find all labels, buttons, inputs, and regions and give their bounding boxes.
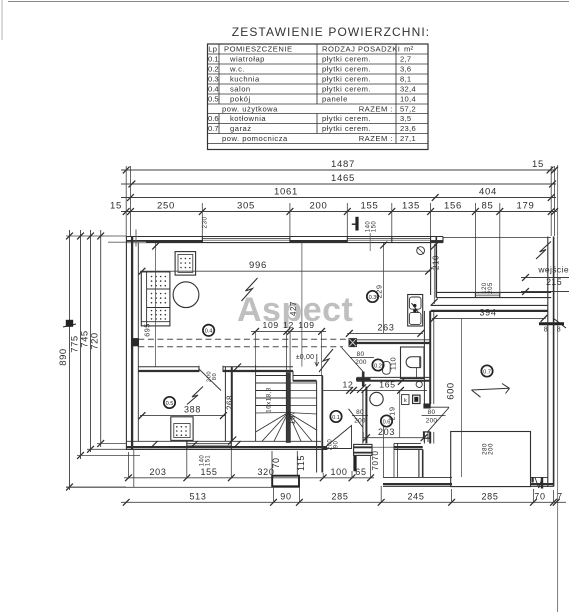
terrace left edge line [133, 450, 135, 488]
window glass lines bottom wall [187, 442, 232, 444]
svg-text:1061: 1061 [274, 187, 298, 198]
svg-text:513: 513 [189, 491, 206, 501]
junction block on left wall [132, 339, 139, 346]
garage door rectangle [451, 432, 531, 487]
dim line 203 155 320 100 65 bottom inner [124, 477, 374, 479]
svg-text:32,4: 32,4 [400, 85, 416, 94]
window axis ticks on bottom wall [151, 441, 158, 448]
svg-text:268: 268 [226, 395, 235, 410]
stairs center stringer [286, 373, 290, 443]
window axis line [369, 233, 371, 251]
svg-text:155: 155 [361, 201, 379, 212]
stairs treads left flight [256, 375, 287, 377]
window axis marker on top wall [355, 217, 358, 231]
svg-text:wiatrołap: wiatrołap [229, 55, 265, 64]
hall circle rug [370, 392, 383, 405]
top wall right end cap [442, 237, 444, 243]
svg-text:80: 80 [428, 409, 436, 416]
window glass lines top wall left [202, 238, 290, 240]
room 0.1 label circle [330, 411, 341, 422]
hall entrance door triangle [324, 426, 352, 449]
stringer extension lines to dim [286, 332, 288, 373]
right exterior wall [547, 237, 549, 487]
svg-text:3,5: 3,5 [400, 114, 411, 123]
svg-text:210: 210 [432, 255, 441, 270]
stairs left boundary line [255, 365, 257, 441]
svg-text:109: 109 [298, 320, 314, 330]
svg-text:0.3: 0.3 [208, 75, 219, 84]
dim 263 kitchen [347, 332, 423, 334]
svg-text:110: 110 [389, 357, 398, 370]
svg-text:600: 600 [446, 382, 457, 399]
svg-text:85: 85 [482, 201, 494, 212]
stairs notch wall [293, 375, 323, 377]
svg-text:100: 100 [330, 467, 347, 477]
kotlownia door swing [349, 409, 364, 428]
dim line 1061 and 404 [121, 197, 556, 199]
garage door wall cap [424, 404, 430, 408]
wall cross junction [356, 378, 371, 381]
svg-text:1487: 1487 [331, 159, 355, 170]
dashed overhang line lower [138, 346, 343, 348]
svg-text:263: 263 [377, 322, 394, 332]
svg-text:m²: m² [404, 44, 414, 53]
svg-text:pokój: pokój [230, 95, 251, 104]
top exterior wall inner line [126, 242, 443, 244]
svg-text:996: 996 [249, 260, 267, 271]
dim 12 165 hall [323, 389, 427, 391]
dim ext 695 line left [155, 243, 157, 367]
svg-text:150: 150 [372, 221, 378, 233]
svg-text:RAZEM :: RAZEM : [359, 105, 393, 114]
svg-text:3,6: 3,6 [400, 65, 411, 74]
svg-text:720: 720 [90, 332, 101, 349]
svg-text:394: 394 [479, 307, 496, 317]
svg-text:165: 165 [379, 379, 395, 389]
dim line 513 90 285 245 285 70 7 bottom outer [121, 501, 566, 503]
svg-text:0.2: 0.2 [208, 65, 219, 74]
svg-text:80: 80 [356, 409, 364, 416]
wc top wall end block hatched [349, 339, 356, 347]
svg-text:230: 230 [202, 216, 209, 228]
dim 394 garage [432, 317, 546, 319]
svg-text:187: 187 [288, 410, 297, 425]
svg-text:ZESTAWIENIE POWIERZCHNI:: ZESTAWIENIE POWIERZCHNI: [232, 25, 430, 39]
room 0.5 armchair [171, 417, 193, 441]
svg-text:427: 427 [289, 301, 298, 316]
dim 388 room 0.5 [140, 415, 225, 417]
left exterior wall [125, 237, 127, 450]
porch step side lines [271, 451, 273, 476]
wc washbasin [383, 362, 391, 375]
svg-text:płytki cerem.: płytki cerem. [322, 85, 371, 94]
svg-text:Lp: Lp [208, 44, 217, 53]
svg-text:200: 200 [355, 359, 367, 366]
svg-text:12: 12 [283, 320, 294, 330]
svg-text:70: 70 [371, 461, 380, 471]
svg-text:404: 404 [479, 187, 497, 198]
wc floor drain circle [416, 381, 422, 387]
svg-text:8: 8 [557, 327, 562, 334]
svg-text:płytki cerem.: płytki cerem. [322, 124, 371, 133]
garage gate opening sill line [452, 486, 531, 488]
porch step bold rectangle [272, 476, 299, 487]
svg-text:2,7: 2,7 [400, 55, 411, 64]
wc toilet [401, 347, 425, 379]
table column lines [218, 44, 220, 54]
dim line 1487 top [121, 169, 556, 171]
bottom exterior wall left part [126, 440, 321, 442]
svg-text:200: 200 [488, 443, 495, 455]
boiler box K [402, 395, 409, 405]
border right margin line [557, 165, 559, 612]
room 0.7 label circle [481, 365, 492, 376]
entry door jamb bold tick [353, 456, 356, 472]
border left tick [1, 0, 3, 40]
svg-text:65: 65 [355, 467, 366, 477]
room 0.3 label circle [367, 291, 378, 302]
kotlownia garage door swing [428, 408, 450, 432]
room 0.5 right wall [224, 367, 226, 442]
kitchen sink unit [408, 295, 423, 327]
svg-text:16x18,8: 16x18,8 [266, 387, 273, 413]
svg-text:salon: salon [230, 85, 251, 94]
room 0.4 label circle [203, 325, 214, 336]
kitchen right exterior wall [430, 243, 432, 295]
svg-text:POMIESZCZENIE: POMIESZCZENIE [224, 44, 293, 53]
svg-text:0.5: 0.5 [208, 95, 219, 104]
dim line segments 15 250 305 200 155 135 156 85 179 [121, 211, 557, 213]
svg-text:388: 388 [184, 404, 201, 414]
garage vertical ext line [460, 319, 462, 477]
room 0.5 door swing [199, 369, 222, 391]
svg-text:12: 12 [343, 379, 354, 389]
room 0.2 label circle [372, 359, 383, 370]
svg-text:200: 200 [310, 201, 328, 212]
garage door lower pier [424, 432, 430, 438]
svg-text:płytki cerem.: płytki cerem. [322, 55, 371, 64]
svg-text:179: 179 [517, 201, 535, 212]
section zigzag hall [319, 349, 333, 372]
wc door swing leaf [342, 348, 364, 372]
svg-text:695: 695 [143, 323, 152, 337]
svg-text:7: 7 [557, 491, 563, 501]
kotlownia left wall [362, 391, 364, 444]
wc bottom wall [357, 376, 431, 378]
svg-text:0.7: 0.7 [208, 124, 219, 133]
garage bottom wall right of gate [531, 476, 548, 478]
wall above stairs [223, 366, 293, 368]
kitchen zone divider ext line [383, 243, 385, 333]
svg-text:890: 890 [58, 348, 69, 365]
entry door sill line [372, 446, 394, 448]
svg-text:garaż: garaż [230, 124, 252, 133]
svg-text:70: 70 [371, 451, 380, 461]
svg-text:RODZAJ POSADZKI: RODZAJ POSADZKI [322, 44, 400, 53]
entry porch right edge [393, 450, 395, 478]
garage left wall [423, 311, 425, 404]
svg-text:245: 245 [407, 491, 424, 501]
dim line 775 [80, 230, 82, 459]
svg-text:1465: 1465 [331, 173, 355, 184]
top exterior wall outer line [126, 236, 443, 238]
dim line 1465 [121, 183, 556, 185]
svg-text:0.6: 0.6 [208, 114, 219, 123]
svg-text:w.c.: w.c. [229, 65, 245, 74]
garage side wall face line [433, 311, 435, 404]
corner construction lines top left [108, 241, 146, 243]
porch top wall with door [436, 291, 551, 293]
top wall solid emphasis segments [126, 240, 203, 242]
section zigzag room 0.5 [187, 387, 203, 405]
svg-text:135: 135 [402, 201, 420, 212]
hall side wall below bottom wall [316, 437, 318, 472]
svg-text:pow. użytkowa: pow. użytkowa [222, 105, 278, 114]
room 0.5 label circle [164, 397, 175, 408]
window glass lines top wall right [347, 238, 430, 240]
dim line 890 left [69, 230, 71, 490]
svg-text:90: 90 [334, 441, 340, 449]
marker on 890 line [66, 320, 72, 326]
dim line 720 [100, 230, 102, 447]
dim 109 12 109 stairs [251, 330, 326, 332]
svg-text:0.4: 0.4 [208, 85, 219, 94]
svg-text:15: 15 [532, 159, 544, 170]
svg-text:205: 205 [488, 282, 494, 294]
svg-text:200: 200 [354, 417, 366, 424]
dim tick on wc bottom wall [398, 378, 405, 385]
entry threshold block [354, 444, 372, 455]
svg-text:płytki cerem.: płytki cerem. [322, 114, 371, 123]
svg-text:±0,00: ±0,00 [296, 354, 314, 361]
room 0.6 label circle [381, 415, 392, 426]
svg-text:57,2: 57,2 [400, 105, 416, 114]
svg-text:70: 70 [534, 491, 545, 501]
garage lower left corner wall [418, 450, 420, 478]
svg-text:pow. pomocnicza: pow. pomocnicza [222, 134, 288, 143]
svg-text:155: 155 [200, 467, 217, 477]
svg-text:23,6: 23,6 [400, 124, 416, 133]
top wall window mullions [201, 237, 203, 243]
svg-text:90: 90 [280, 491, 291, 501]
stairs winder fan lines [256, 412, 289, 415]
garage bottom wall left of gate [383, 476, 452, 478]
border top edge line [8, 1, 569, 3]
svg-text:80: 80 [212, 373, 218, 380]
svg-text:kuchnia: kuchnia [230, 75, 260, 84]
svg-text:0.1: 0.1 [208, 55, 219, 64]
section zigzag right top [536, 242, 551, 260]
garage side door swing bottom right [531, 477, 533, 483]
svg-text:70: 70 [271, 457, 281, 468]
svg-text:285: 285 [481, 491, 498, 501]
svg-text:10,4: 10,4 [400, 95, 416, 104]
svg-text:15: 15 [110, 201, 122, 212]
svg-text:80: 80 [357, 351, 365, 358]
garage top wall [431, 304, 548, 306]
svg-text:250: 250 [157, 201, 175, 212]
boiler equipment square [413, 395, 420, 403]
garage slope chevron [472, 388, 510, 390]
svg-text:27,1: 27,1 [400, 134, 416, 143]
svg-text:305: 305 [237, 201, 255, 212]
svg-text:109: 109 [262, 320, 278, 330]
svg-text:płytki cerem.: płytki cerem. [322, 75, 371, 84]
armchair in salon top [175, 252, 196, 276]
dim 203 kotlownia [364, 437, 425, 439]
terrace edge line bottom left [66, 486, 300, 488]
stairs treads right flight [290, 382, 316, 384]
svg-text:0.7: 0.7 [483, 369, 491, 375]
dim tick on room 0.5 wall [233, 364, 241, 372]
svg-text:k: k [404, 398, 407, 404]
top dim extension lines [125, 166, 127, 236]
porch roof edge line top right [443, 237, 551, 239]
round table in salon [173, 282, 199, 308]
dim line wejscie [521, 277, 569, 279]
table horizontal row lines [208, 53, 429, 55]
svg-text:0.4: 0.4 [205, 329, 213, 335]
wall between salon and room 0.5 [138, 366, 199, 368]
dim 996 salon kitchen [140, 270, 431, 272]
svg-text:8,1: 8,1 [400, 75, 411, 84]
wc top wall [349, 339, 430, 341]
svg-text:RAZEM :: RAZEM : [359, 134, 393, 143]
svg-text:płytki cerem.: płytki cerem. [322, 65, 371, 74]
bold level bar 8 8 right [539, 322, 564, 325]
svg-text:kotłownia: kotłownia [230, 114, 266, 123]
svg-text:203: 203 [378, 427, 395, 437]
svg-text:219: 219 [388, 406, 397, 420]
section zigzag salon [242, 278, 258, 301]
svg-text:285: 285 [331, 491, 348, 501]
svg-text:151: 151 [206, 455, 212, 467]
svg-text:0.5: 0.5 [166, 401, 174, 407]
svg-text:203: 203 [149, 467, 166, 477]
svg-text:panele: panele [322, 95, 348, 104]
svg-text:0.1: 0.1 [332, 415, 340, 421]
sofa in salon [141, 272, 170, 326]
kotlownia bottom wall [394, 442, 421, 444]
dim line 745 [90, 230, 92, 452]
bottom outer dim extension lines [273, 487, 275, 502]
svg-text:156: 156 [444, 201, 462, 212]
bottom inner dim extension lines [128, 452, 130, 478]
svg-text:0.2: 0.2 [374, 363, 382, 369]
dashed overhang line upper [138, 338, 349, 340]
kotlownia garage door opening line [424, 406, 449, 408]
table outer border [208, 44, 429, 150]
svg-text:200: 200 [426, 417, 438, 424]
dim ext line kotlownia [399, 391, 401, 438]
bottom window mullions [186, 441, 188, 449]
kitchen hob circle [417, 247, 425, 255]
svg-text:229: 229 [374, 284, 383, 298]
